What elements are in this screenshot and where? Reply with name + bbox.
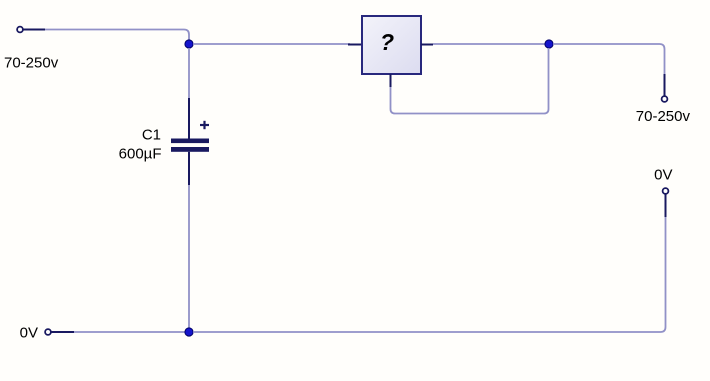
- capacitor C1: [171, 98, 209, 185]
- wire node A to U1 left pin: [193, 43, 350, 45]
- terminal input left (70-250v): [17, 27, 45, 33]
- wire from left terminal to node A: [45, 30, 189, 41]
- U1 right pin lead: [421, 44, 433, 46]
- wire node C to right 0V terminal: [193, 217, 666, 332]
- label 0V (right): [654, 167, 672, 184]
- svg-text:70-250v: 70-250v: [636, 108, 691, 125]
- svg-text:70-250v: 70-250v: [4, 55, 59, 72]
- unknown component U1 (? box): [362, 16, 421, 74]
- svg-text:0V: 0V: [20, 325, 38, 342]
- wire capacitor C1 to node C: [188, 185, 190, 328]
- label 70-250v (right): [636, 108, 691, 125]
- svg-text:0V: 0V: [654, 167, 672, 184]
- label 70-250v (top left): [4, 55, 59, 72]
- label 0V (bottom left): [20, 325, 38, 342]
- polarity + mark: [200, 121, 209, 129]
- node C junction (bottom of C1): [185, 328, 193, 336]
- U1 bottom pin lead: [390, 74, 392, 87]
- op-amp U1 left pin lead: [348, 44, 362, 46]
- wire U1 right pin to node B: [433, 43, 545, 45]
- node A junction (top of C1): [185, 40, 193, 48]
- terminal output right 0V lead: [663, 188, 669, 217]
- wire node B to right output corner: [553, 44, 665, 74]
- terminal output right (70-250v) lead: [662, 74, 668, 102]
- wire node A down to capacitor C1: [188, 48, 190, 98]
- svg-text:C1: C1: [142, 127, 161, 144]
- terminal input left 0V: [45, 329, 74, 335]
- node B junction: [545, 40, 553, 48]
- label C1: [142, 127, 161, 144]
- wire 0V terminal to node C: [74, 331, 185, 333]
- value label 600µF: [119, 145, 162, 162]
- svg-text:600µF: 600µF: [119, 145, 162, 162]
- wire U1 bottom pin loop to node B: [391, 48, 549, 114]
- svg-text:?: ?: [380, 29, 394, 55]
